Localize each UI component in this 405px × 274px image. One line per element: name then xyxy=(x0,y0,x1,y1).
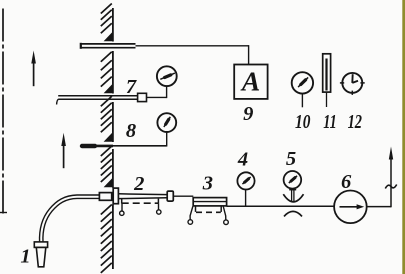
barometer 10 xyxy=(292,72,313,93)
vessel 3 drains xyxy=(188,207,228,225)
filter vessel 2 xyxy=(118,194,167,204)
svg-text:A: A xyxy=(240,66,260,97)
gauge 8 needle xyxy=(164,117,170,127)
main suction line xyxy=(227,205,335,207)
svg-text:7: 7 xyxy=(126,76,137,98)
flow arrow lower xyxy=(61,133,66,168)
line break tilde xyxy=(385,185,396,189)
probe 8 tube xyxy=(82,132,167,147)
svg-text:12: 12 xyxy=(348,111,362,133)
svg-text:10: 10 xyxy=(295,111,310,133)
svg-text:2: 2 xyxy=(133,173,144,195)
svg-text:4: 4 xyxy=(237,149,248,171)
barometer needle xyxy=(298,77,308,87)
svg-text:1: 1 xyxy=(20,246,30,268)
barometer stem xyxy=(301,94,303,108)
svg-text:3: 3 xyxy=(202,172,213,194)
clock 12 xyxy=(340,73,365,95)
wall wedge marks at openings xyxy=(104,32,113,187)
pump 6 xyxy=(334,191,367,224)
hose coupling at wall xyxy=(99,193,111,201)
wire union to vessel 3 xyxy=(173,195,193,197)
thermometer 11 xyxy=(323,54,331,107)
gauge 5 needle xyxy=(289,176,297,183)
gauge 5 stem xyxy=(289,190,296,201)
duct wall hatching xyxy=(101,4,112,273)
vessel 2 drains xyxy=(120,204,161,216)
union 2-3 xyxy=(167,191,173,201)
gauge of probe 8 xyxy=(157,113,176,132)
svg-text:5: 5 xyxy=(286,148,296,170)
drier vessel 3 xyxy=(193,198,226,213)
nozzle 1 xyxy=(34,242,47,267)
pump flow arrow xyxy=(340,204,365,209)
exhaust arrow head xyxy=(389,147,393,160)
probe 7 union xyxy=(138,93,147,101)
svg-text:6: 6 xyxy=(341,171,352,193)
page edge stripe xyxy=(402,0,405,274)
svg-text:9: 9 xyxy=(243,103,253,125)
gauge 4 stem xyxy=(245,189,247,206)
svg-text:11: 11 xyxy=(323,111,336,133)
gauge 4 xyxy=(237,172,254,189)
svg-text:8: 8 xyxy=(126,120,136,142)
flowmeter gauge 5 xyxy=(284,171,302,189)
orifice arcs xyxy=(283,194,303,216)
probe 7 tube xyxy=(57,96,138,105)
wire tube to box 9 xyxy=(136,45,249,64)
gauge 4 needle xyxy=(242,177,250,184)
gauge of probe 7 xyxy=(157,66,177,86)
flow arrow upper xyxy=(31,51,36,87)
wire probe 7 to gauge xyxy=(147,86,167,98)
duct axis chain line xyxy=(0,9,7,217)
hose from nozzle 1 xyxy=(41,197,100,243)
gauge 7 needle xyxy=(160,73,175,79)
duct wall edge xyxy=(112,8,114,269)
sampling tube top xyxy=(81,43,136,49)
wall flange xyxy=(113,188,118,204)
exhaust wire xyxy=(367,152,391,207)
aspirator box A (item 9) xyxy=(234,65,267,99)
